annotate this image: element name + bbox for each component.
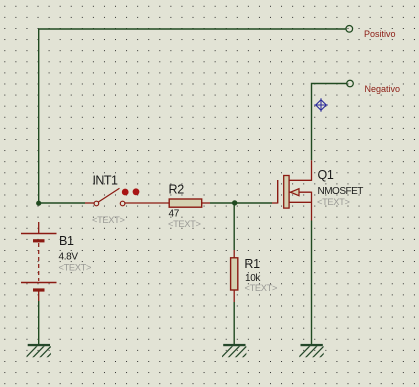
terminal Negativo [347, 80, 400, 94]
wire left rail battery top (green part) [39, 202, 85, 204]
wire battery to ground [38, 301, 40, 344]
switch INT1 [85, 173, 152, 225]
wire R2 to gate with junction [210, 202, 272, 204]
svg-text:INT1: INT1 [93, 173, 118, 187]
svg-text:R1: R1 [244, 257, 260, 271]
junction node at R1 top [232, 200, 237, 205]
svg-text:<TEXT>: <TEXT> [59, 262, 92, 272]
svg-text:<TEXT>: <TEXT> [168, 219, 201, 229]
resistor R2 [152, 182, 210, 229]
junction node at left rail / switch row [36, 201, 41, 206]
svg-text:Positivo: Positivo [364, 29, 396, 39]
resistor R1 [231, 250, 277, 302]
ground (Q1 source) [297, 344, 339, 359]
transistor Q1 NMOSFET [272, 160, 363, 220]
svg-text:B1: B1 [59, 234, 74, 248]
svg-text:Q1: Q1 [318, 168, 334, 182]
svg-text:<TEXT>: <TEXT> [317, 197, 350, 207]
battery B1 [21, 222, 91, 301]
wire junction down to R1 [233, 203, 235, 250]
svg-text:<TEXT>: <TEXT> [92, 215, 125, 225]
wire R1 to ground [233, 302, 235, 344]
wire Negativo to Q1 drain [312, 84, 347, 161]
terminal Positivo [346, 26, 396, 39]
svg-text:R2: R2 [169, 182, 185, 196]
wire top rail from left rail to Positivo [39, 29, 346, 203]
svg-text:Negativo: Negativo [365, 84, 401, 94]
svg-text:<TEXT>: <TEXT> [245, 283, 278, 293]
svg-text:4.8V: 4.8V [59, 252, 79, 263]
ground (battery) [24, 344, 66, 359]
wire Q1 source to ground [311, 221, 313, 345]
ground (R1) [220, 344, 262, 359]
origin marker (blue diamond) [314, 98, 328, 112]
svg-text:NMOSFET: NMOSFET [318, 186, 364, 197]
